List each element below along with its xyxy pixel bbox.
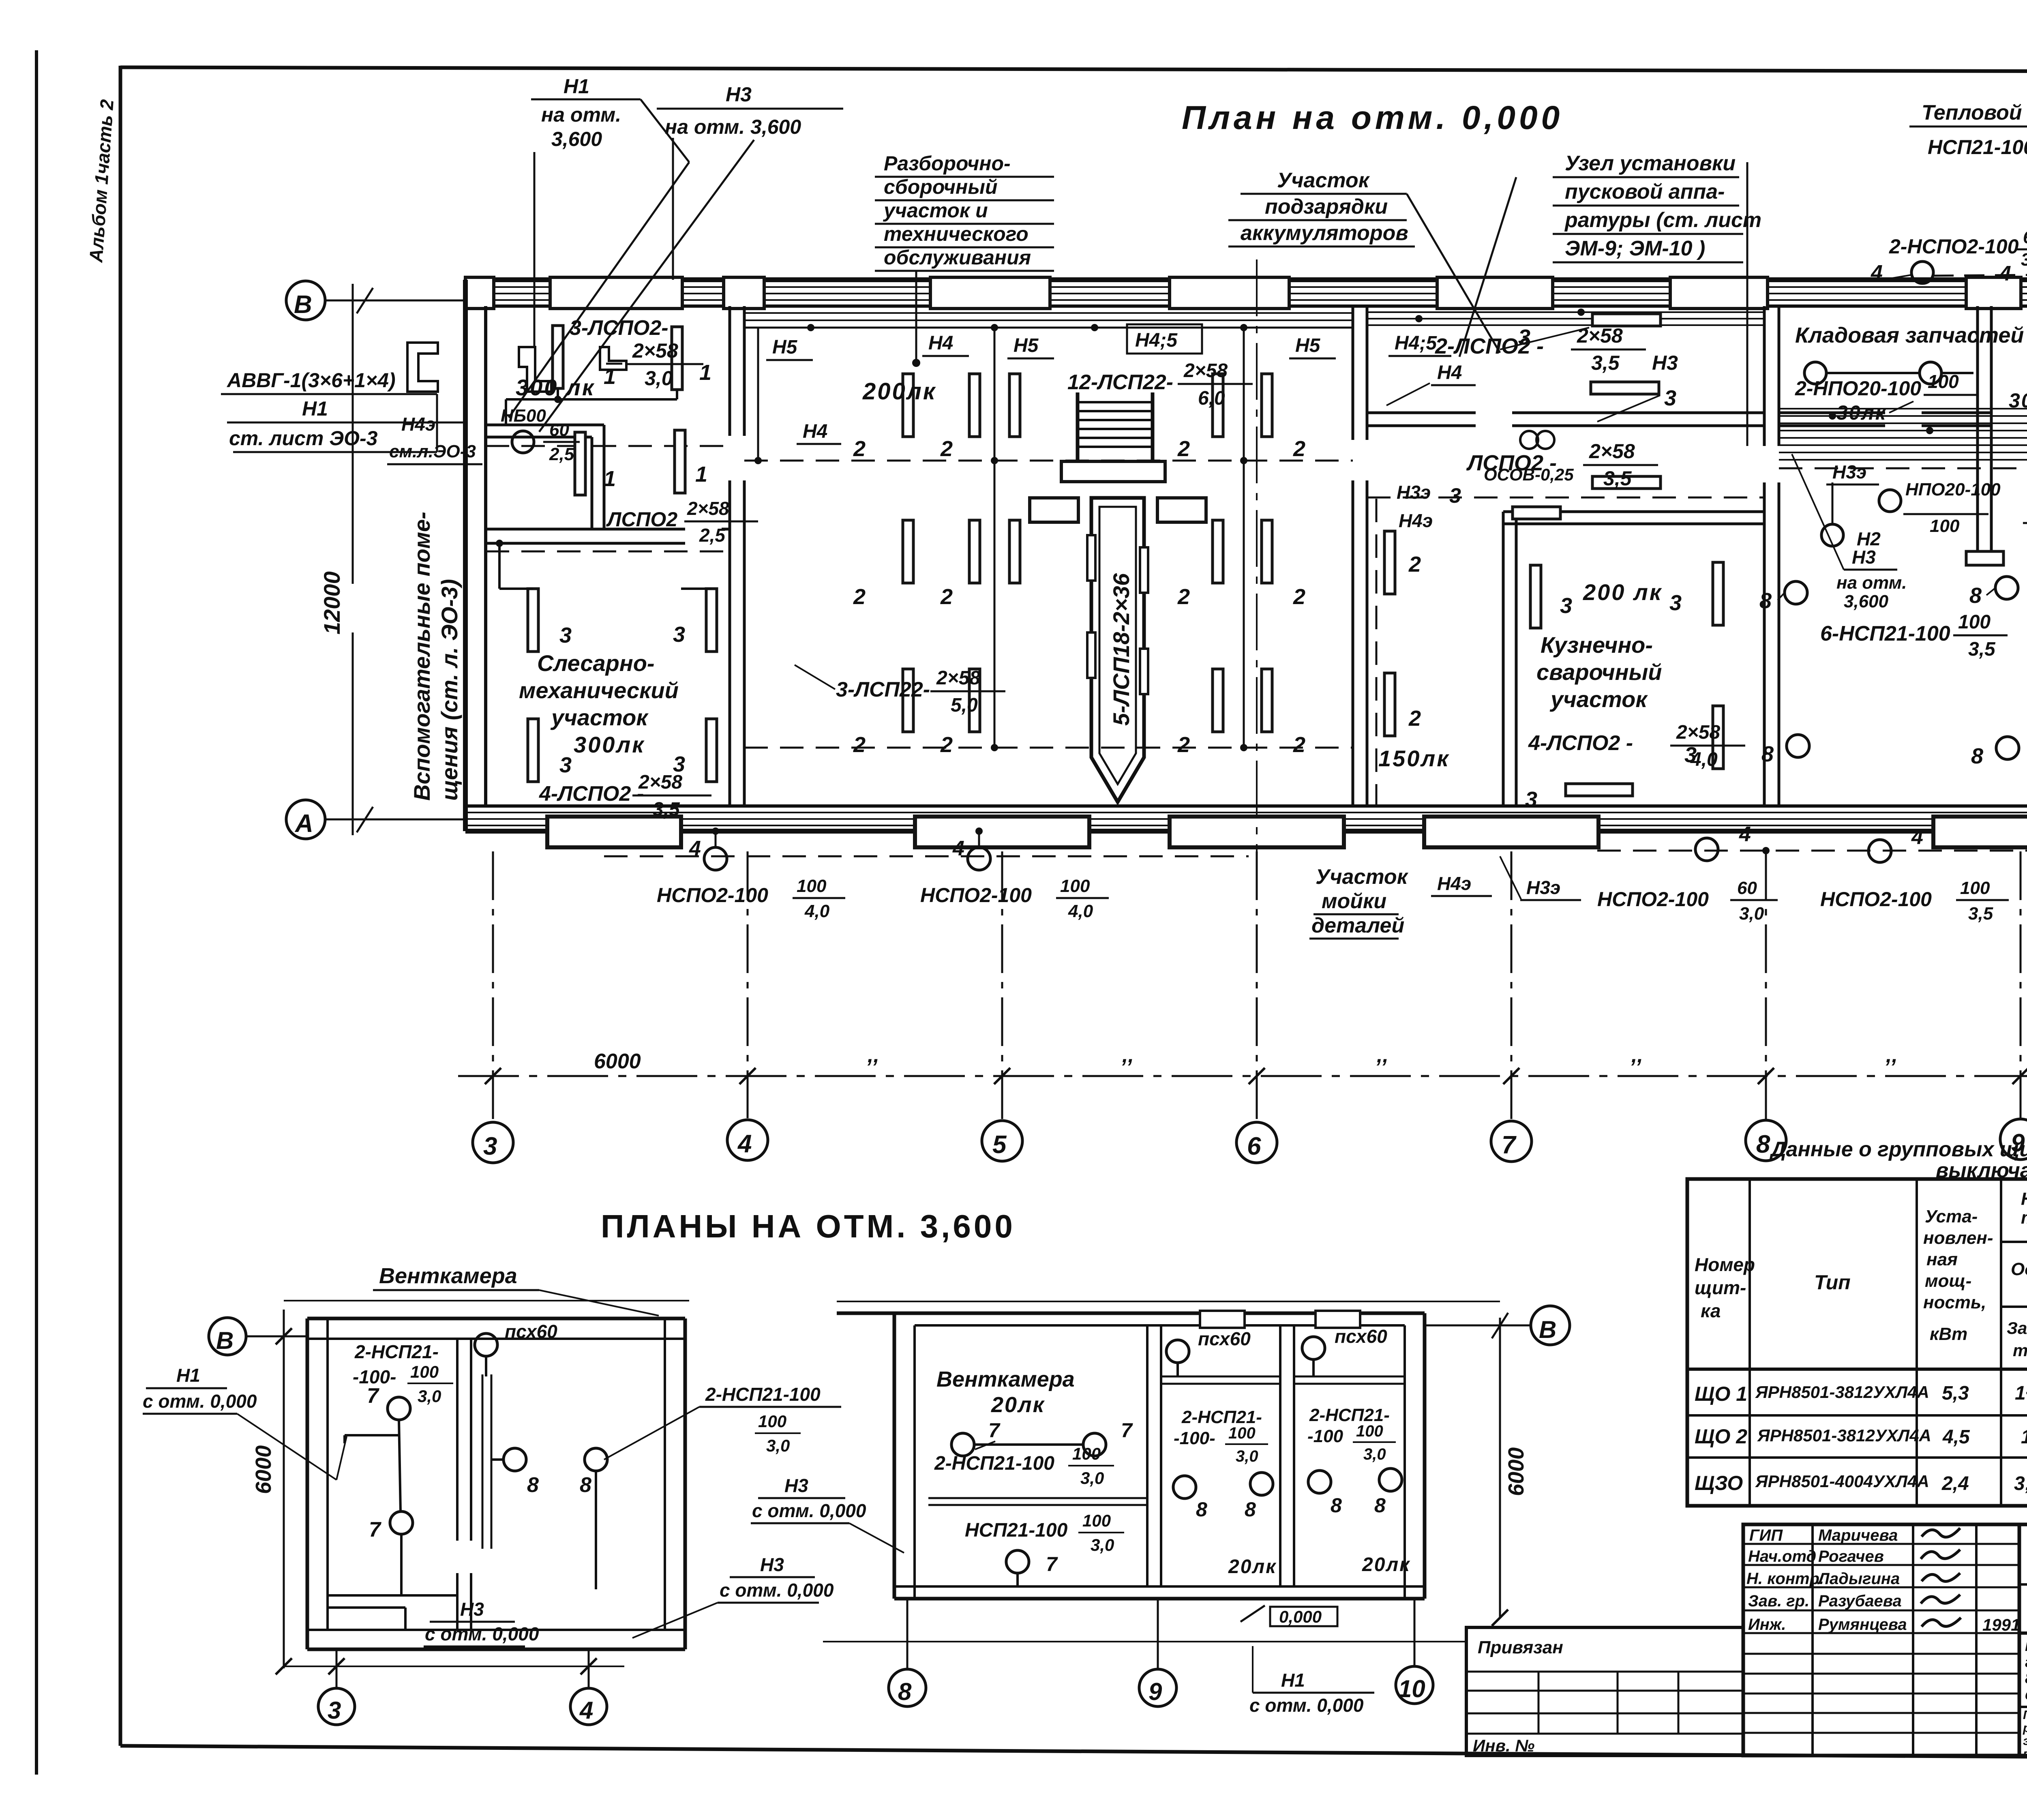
svg-text:3,5: 3,5 <box>1591 352 1620 374</box>
svg-text:2: 2 <box>1293 437 1305 461</box>
svg-text:гаража на 8автомашин и: гаража на 8автомашин и <box>2025 1654 2027 1671</box>
partition wall grid8 vertical <box>1763 306 1766 446</box>
fluorescent fixture hall r1c3 <box>1009 374 1020 437</box>
frame bottom <box>120 1746 2027 1760</box>
svg-text:8: 8 <box>1196 1498 1207 1521</box>
svg-text:3,0: 3,0 <box>645 367 673 390</box>
svg-text:-100-: -100- <box>353 1366 396 1387</box>
svg-text:НСПО2-100: НСПО2-100 <box>1597 888 1709 911</box>
svg-text:100: 100 <box>1928 371 1959 392</box>
right plan lamps 8 <box>1173 1476 1196 1498</box>
svg-text:см.л.ЭО-3: см.л.ЭО-3 <box>389 442 476 461</box>
svg-text:обслуживания: обслуживания <box>884 246 1031 269</box>
svg-text:2-НПО20-100: 2-НПО20-100 <box>1795 377 1921 400</box>
svg-text:Н3: Н3 <box>726 83 752 106</box>
right plan psx60 lamps <box>1166 1340 1189 1363</box>
fluorescent fixture hall r3c4 <box>1213 669 1223 732</box>
signature scribbles <box>1922 1528 1960 1537</box>
svg-text:4,0: 4,0 <box>804 901 830 921</box>
pit fixture ЛСП18 left top <box>1087 535 1095 581</box>
svg-text:мойки: мойки <box>1322 890 1386 913</box>
svg-text:на отм.: на отм. <box>1836 573 1907 593</box>
svg-text:Данные о групповых щитках с ав: Данные о групповых щитках с автоматическ… <box>1769 1138 2027 1161</box>
svg-text:100: 100 <box>1228 1424 1256 1442</box>
svg-text:Зав. гр.: Зав. гр. <box>1748 1592 1809 1610</box>
svg-text:3,5: 3,5 <box>1968 904 1993 924</box>
svg-text:ЩЗО: ЩЗО <box>1695 1472 1743 1494</box>
inspection pit inner line <box>1099 507 1136 784</box>
svg-text:псх60: псх60 <box>1198 1328 1251 1349</box>
svg-text:АВВГ-1(3×6+1×4): АВВГ-1(3×6+1×4) <box>226 369 396 392</box>
right plan bottom ground line <box>823 1641 1468 1642</box>
svg-text:6,0: 6,0 <box>1198 388 1225 409</box>
title block stamp <box>1466 1524 2027 1805</box>
left plan lamps 8 <box>504 1448 526 1471</box>
svg-text:Привязан: Привязан <box>1478 1638 1563 1657</box>
svg-text:8: 8 <box>1759 589 1772 613</box>
svg-text:8: 8 <box>1374 1494 1386 1517</box>
svg-text:60: 60 <box>1737 878 1757 898</box>
svg-text:стоянкой: стоянкой <box>2025 1686 2027 1703</box>
svg-text:ПЛАНЫ НА ОТМ. 3,600: ПЛАНЫ НА ОТМ. 3,600 <box>601 1208 1016 1244</box>
svg-text:5: 5 <box>992 1131 1007 1159</box>
gate sill grid6 <box>1170 817 1344 847</box>
svg-text:100: 100 <box>1072 1444 1101 1463</box>
hall top wiring bundle <box>744 312 1353 314</box>
bottom wall outer line <box>465 829 2027 834</box>
fixture locksmith b <box>706 589 717 652</box>
main plan title <box>1182 99 1563 136</box>
svg-text:4-ЛСПО2 -: 4-ЛСПО2 - <box>539 782 644 806</box>
fluorescent fixture hall r3c2 <box>969 669 980 732</box>
svg-text:,,: ,, <box>1376 1044 1388 1067</box>
partition wall horizontal left rooms <box>486 528 685 531</box>
svg-text:7: 7 <box>1502 1131 1517 1159</box>
svg-text:3,0: 3,0 <box>1236 1447 1258 1465</box>
entry circle НБ00 <box>512 431 534 453</box>
svg-text:Номера автома-: Номера автома- <box>2021 1189 2027 1209</box>
svg-text:10: 10 <box>1398 1675 1425 1702</box>
svg-text:Н1: Н1 <box>302 397 328 420</box>
svg-text:Н1: Н1 <box>564 75 589 98</box>
fixture room1 b <box>672 327 682 390</box>
svg-text:НСП21-100: НСП21-100 <box>1928 136 2027 159</box>
svg-text:2-НСПО2-100: 2-НСПО2-100 <box>1889 235 2019 258</box>
svg-text:Тип: Тип <box>1814 1271 1851 1294</box>
left exterior wall <box>463 280 468 831</box>
svg-text:2×58: 2×58 <box>1183 360 1228 382</box>
fluorescent fixture hall r2c4 <box>1213 520 1223 583</box>
svg-text:на отм. 3,600: на отм. 3,600 <box>665 116 801 138</box>
svg-text:2: 2 <box>1177 585 1190 609</box>
svg-text:3,600: 3,600 <box>1844 592 1889 611</box>
svg-text:3,600: 3,600 <box>551 128 602 150</box>
stairs landing <box>1061 461 1165 482</box>
svg-text:3,0: 3,0 <box>418 1387 441 1406</box>
ОСОВ fixture <box>1520 431 1538 449</box>
svg-text:7: 7 <box>367 1384 379 1408</box>
svg-text:Однополюс-: Однополюс- <box>2011 1259 2027 1279</box>
svg-text:3: 3 <box>1664 386 1676 410</box>
fluorescent fixture hall r2c2 <box>969 520 980 583</box>
svg-text:сварочный: сварочный <box>1536 659 1662 685</box>
bottom wall stripes <box>465 812 2027 813</box>
svg-text:технического: технического <box>884 223 1028 245</box>
svg-text:Н4: Н4 <box>1437 362 1462 384</box>
svg-text:ЯРН8501-3812УХЛ4А: ЯРН8501-3812УХЛ4А <box>1755 1383 1929 1402</box>
svg-text:Н3э: Н3э <box>1397 482 1431 503</box>
top wall pier near grid8 <box>1670 277 1768 309</box>
svg-text:ЩО 2: ЩО 2 <box>1695 1425 1747 1448</box>
dimension ticks <box>485 1068 501 1084</box>
svg-text:100: 100 <box>1958 611 1991 633</box>
svg-text:пусковой аппа-: пусковой аппа- <box>1565 180 1725 204</box>
svg-text:Н4э: Н4э <box>1437 873 1471 894</box>
stairs rails <box>1076 392 1080 462</box>
svg-text:Н3: Н3 <box>1852 547 1876 568</box>
grid 6 line <box>1256 851 1258 1121</box>
svg-text:7: 7 <box>369 1518 381 1541</box>
svg-text:30лк: 30лк <box>2009 389 2027 412</box>
svg-text:2: 2 <box>1177 733 1190 757</box>
fixture locksmith a <box>528 589 538 652</box>
svg-text:ЛСПО2: ЛСПО2 <box>606 508 677 531</box>
svg-text:участок: участок <box>1549 686 1648 712</box>
svg-text:1991: 1991 <box>1982 1615 2020 1634</box>
left plan lower partition <box>328 1594 457 1597</box>
pit fixture ЛСП18 right top <box>1140 547 1148 593</box>
svg-text:60: 60 <box>2023 227 2027 247</box>
svg-text:Слесарно-: Слесарно- <box>537 650 655 676</box>
fixture next to forge wall labels <box>1384 531 1395 594</box>
svg-text:1: 1 <box>604 467 616 491</box>
svg-text:Н3э: Н3э <box>1526 877 1560 898</box>
svg-text:3-ЛСП22-: 3-ЛСП22- <box>836 678 930 701</box>
svg-text:4,5: 4,5 <box>1942 1426 1970 1448</box>
fixture room1 c <box>575 432 585 495</box>
svg-text:псх60: псх60 <box>1335 1326 1387 1347</box>
circuit dashed line hall upper <box>486 445 730 447</box>
top wall window piers right plan <box>1200 1311 1245 1328</box>
plan interior wiring and fixtures <box>486 291 2027 854</box>
pit fixture ЛСП18 right bottom <box>1140 649 1148 694</box>
svg-text:Н1: Н1 <box>176 1365 200 1386</box>
right wing wiring bundle <box>1779 408 2027 409</box>
svg-text:-100-: -100- <box>1174 1428 1215 1448</box>
svg-text:аккумуляторов: аккумуляторов <box>1241 221 1408 245</box>
svg-text:8: 8 <box>1331 1494 1342 1517</box>
svg-text:новлен-: новлен- <box>1923 1228 1993 1248</box>
gate sill grid5 <box>915 817 1089 847</box>
svg-text:3: 3 <box>1525 787 1537 812</box>
svg-text:ратуры (ст. лист: ратуры (ст. лист <box>1564 208 1761 232</box>
svg-text:Н3: Н3 <box>760 1554 784 1575</box>
svg-text:,,: ,, <box>1886 1044 1898 1067</box>
left plan partition <box>456 1339 459 1541</box>
svg-text:3,0: 3,0 <box>1363 1445 1386 1463</box>
right plan long duct in ventchamber <box>928 1497 1147 1499</box>
forge room left wall <box>1502 512 1505 806</box>
svg-text:Тепловой узел: Тепловой узел <box>1922 101 2027 124</box>
svg-text:3-ЛСПО2-: 3-ЛСПО2- <box>570 316 669 340</box>
svg-text:В: В <box>294 291 312 319</box>
bottom exterior wall inner line <box>465 804 2027 808</box>
fluorescent fixture hall r2c3 <box>1009 520 1020 583</box>
svg-text:,,: ,, <box>1122 1044 1134 1067</box>
grid bubble 9 <box>2000 1119 2027 1160</box>
storeroom right wall with stub <box>1976 306 1979 551</box>
svg-text:Н4э: Н4э <box>1399 510 1433 531</box>
svg-text:7: 7 <box>1046 1553 1058 1576</box>
fluorescent fixture hall r1c4 <box>1213 374 1223 437</box>
top wall pier near grid5 <box>930 277 1050 309</box>
top wall window stripes <box>465 286 2027 288</box>
svg-text:3,5: 3,5 <box>1968 639 1996 660</box>
svg-text:Заня.: Заня. <box>2007 1318 2027 1338</box>
svg-text:2×58: 2×58 <box>687 498 729 519</box>
forge room top wall <box>1503 510 1764 513</box>
svg-text:Кузнечно-: Кузнечно- <box>1541 632 1653 658</box>
outdoor lamp 4 b <box>968 847 990 870</box>
svg-text:20лк: 20лк <box>1362 1554 1411 1576</box>
svg-text:20лк: 20лк <box>991 1393 1045 1417</box>
grid 9 line <box>2020 851 2022 1118</box>
svg-text:ная: ная <box>1926 1250 1958 1269</box>
svg-text:8: 8 <box>1761 742 1774 766</box>
grid bubble 4 <box>727 1120 768 1160</box>
fluorescent fixture hall r1c1 <box>903 374 913 437</box>
grid bubble 7 <box>1491 1121 1532 1162</box>
svg-text:Узел установки: Узел установки <box>1565 152 1736 175</box>
svg-text:2: 2 <box>853 733 866 757</box>
svg-text:6000: 6000 <box>251 1445 276 1494</box>
svg-text:3,0: 3,0 <box>1080 1468 1104 1488</box>
svg-text:Инв. №: Инв. № <box>1473 1736 1534 1755</box>
svg-text:4: 4 <box>737 1130 752 1158</box>
annotations below plan <box>604 358 2027 939</box>
svg-text:6000: 6000 <box>1504 1447 1528 1496</box>
circuit dashed forge left vertical <box>1376 499 1378 805</box>
fluorescent fixture hall r2c1 <box>903 520 913 583</box>
corridor top wiring bundle right <box>1367 311 1764 313</box>
grid bubbles left plan <box>336 1649 338 1687</box>
svg-text:Номер: Номер <box>1695 1254 1755 1275</box>
fixture locksmith c <box>528 719 538 782</box>
svg-text:Инж.: Инж. <box>1748 1616 1786 1633</box>
svg-text:Уста-: Уста- <box>1925 1207 1978 1226</box>
svg-text:ГИП: ГИП <box>1749 1526 1783 1544</box>
svg-text:2: 2 <box>853 437 866 461</box>
svg-text:2-ЛСПО2 -: 2-ЛСПО2 - <box>1435 334 1544 358</box>
svg-text:200лк: 200лк <box>862 378 936 405</box>
svg-text:Н. контр.: Н. контр. <box>1746 1570 1824 1588</box>
svg-text:8тракторов с навесом.: 8тракторов с навесом. <box>2025 1670 2027 1687</box>
svg-text:Н4;5: Н4;5 <box>1135 330 1178 351</box>
outdoor lamp 4 d <box>1868 840 1891 862</box>
outdoor circuit dashed left <box>604 855 1249 857</box>
grid bubbles right plan <box>906 1599 909 1669</box>
svg-text:200 лк: 200 лк <box>1583 579 1663 605</box>
svg-text:В: В <box>216 1327 234 1354</box>
svg-text:2×58: 2×58 <box>936 667 980 689</box>
svg-text:с отм. 0,000: с отм. 0,000 <box>720 1580 834 1601</box>
gate sill grid9 <box>1933 817 2027 847</box>
gate sill grid7 <box>1424 817 1598 847</box>
svg-text:100: 100 <box>1060 876 1090 896</box>
svg-text:100: 100 <box>410 1362 439 1381</box>
svg-text:5,3: 5,3 <box>1942 1383 1969 1404</box>
svg-text:ЭМ-9; ЭМ-10 ): ЭМ-9; ЭМ-10 ) <box>1565 237 1705 260</box>
svg-text:2,5: 2,5 <box>699 525 726 546</box>
B circle right plan <box>1531 1306 1570 1345</box>
svg-text:4: 4 <box>1739 823 1751 846</box>
svg-text:А: А <box>294 810 313 838</box>
svg-text:Ладыгина: Ладыгина <box>1817 1570 1900 1588</box>
svg-text:Разборочно-: Разборочно- <box>884 152 1011 175</box>
svg-text:Н4: Н4 <box>803 421 827 442</box>
inspection pit outline <box>1091 498 1144 802</box>
svg-text:3,0: 3,0 <box>1739 904 1764 924</box>
storeroom lamps <box>1804 362 1826 384</box>
panel data table <box>1687 1138 2027 1506</box>
svg-text:12000: 12000 <box>319 571 345 635</box>
left plan duct shaft <box>482 1374 484 1549</box>
top wall pier near grid9 <box>1966 277 2021 309</box>
right plan ducts horizontal <box>1161 1376 1280 1378</box>
svg-text:2: 2 <box>940 585 953 609</box>
svg-text:Н3: Н3 <box>1652 352 1678 374</box>
section dashdot through plan at grid6 <box>1256 259 1258 851</box>
left plan outer walls <box>306 1318 309 1649</box>
svg-text:Планы расположения элект-: Планы расположения элект- <box>2023 1708 2027 1722</box>
svg-text:с отм. 0,000: с отм. 0,000 <box>1249 1695 1364 1716</box>
svg-text:4: 4 <box>1911 825 1923 849</box>
svg-text:2,5: 2,5 <box>549 444 574 464</box>
partition wall grid4 vertical <box>729 306 731 436</box>
svg-text:Кладовая запчастей: Кладовая запчастей <box>1795 323 2024 347</box>
grid 3 line <box>492 851 494 1121</box>
svg-text:8: 8 <box>580 1473 591 1497</box>
svg-text:Н4;5: Н4;5 <box>1395 332 1437 354</box>
svg-text:300лк: 300лк <box>574 732 645 757</box>
top wall pier near grid7 <box>1437 277 1553 309</box>
svg-text:1÷3: 1÷3 <box>2021 1426 2027 1448</box>
top wall pier near grid6 <box>1170 277 1289 309</box>
svg-text:Участок: Участок <box>1277 169 1370 192</box>
svg-text:с отм. 0,000: с отм. 0,000 <box>752 1500 866 1521</box>
svg-text:4-ЛСПО2 -: 4-ЛСПО2 - <box>1528 731 1633 755</box>
svg-text:100: 100 <box>1930 516 1960 536</box>
page edge line <box>35 50 38 1775</box>
svg-text:7: 7 <box>988 1419 1001 1442</box>
svg-text:3: 3 <box>483 1132 497 1160</box>
svg-text:Н3э: Н3э <box>1832 461 1866 482</box>
svg-text:2: 2 <box>1177 437 1190 461</box>
svg-text:3,0: 3,0 <box>1091 1535 1114 1554</box>
svg-text:2: 2 <box>940 437 953 461</box>
svg-text:Производственный корпус: Производственный корпус <box>2025 1638 2027 1655</box>
wiring hall verticals <box>994 328 996 748</box>
left plan vertical dim <box>283 1310 285 1668</box>
svg-text:НСПО2-100: НСПО2-100 <box>1820 888 1932 911</box>
grid 4 line <box>747 851 749 1118</box>
svg-text:псх60: псх60 <box>505 1321 557 1342</box>
pit head crossband <box>1030 498 1078 522</box>
svg-text:НСПО2-100: НСПО2-100 <box>920 884 1032 907</box>
svg-text:2: 2 <box>940 733 953 757</box>
table vertical lines <box>1748 1179 1751 1506</box>
svg-text:3,5: 3,5 <box>653 799 680 820</box>
svg-text:2-НСП21-: 2-НСП21- <box>354 1341 439 1362</box>
dimensions and grid bubbles <box>286 259 2027 1163</box>
signature table outline <box>1743 1524 2019 1756</box>
svg-text:8: 8 <box>1245 1498 1256 1521</box>
fluorescent fixture hall r3c1 <box>903 669 913 732</box>
svg-text:участок и: участок и <box>883 199 988 222</box>
top wall pier midspan 3-4 <box>550 277 682 309</box>
left plan lamps 7 <box>388 1397 410 1420</box>
0.000 level mark <box>1270 1607 1337 1626</box>
top wall inner line <box>465 304 2027 308</box>
svg-text:2-НСП21-100: 2-НСП21-100 <box>705 1384 821 1405</box>
svg-text:НБ00: НБ00 <box>501 406 546 426</box>
svg-text:Рогачев: Рогачев <box>1818 1548 1884 1565</box>
svg-text:1÷5: 1÷5 <box>2015 1383 2027 1404</box>
svg-text:мощ-: мощ- <box>1925 1271 1971 1291</box>
svg-text:-100: -100 <box>1307 1426 1343 1446</box>
grid bubble 3 <box>473 1122 513 1163</box>
wall fragment symbols top-left <box>519 347 551 392</box>
svg-text:Нач.отд: Нач.отд <box>1748 1548 1816 1565</box>
svg-text:100: 100 <box>1960 878 1990 898</box>
right plan outer walls <box>893 1313 896 1599</box>
grid bubble 8 <box>1746 1120 1786 1161</box>
fixture room1 d <box>675 430 685 493</box>
svg-text:3: 3 <box>559 623 572 647</box>
Н4;5 boxed <box>1127 324 1202 354</box>
grid bubble 5 <box>982 1121 1022 1161</box>
svg-text:9: 9 <box>1148 1678 1162 1705</box>
outdoor lamp 4 c <box>1695 838 1718 861</box>
svg-text:Участок: Участок <box>1316 865 1409 889</box>
table horizontal lines <box>2001 1241 2027 1243</box>
svg-text:Венткамера: Венткамера <box>936 1367 1075 1391</box>
svg-text:ЯРН8501-4004УХЛ4А: ЯРН8501-4004УХЛ4А <box>1755 1472 1929 1491</box>
svg-text:6000: 6000 <box>594 1050 641 1073</box>
svg-text:тических выклю-: тических выклю- <box>2021 1208 2027 1228</box>
svg-text:2×58: 2×58 <box>1577 324 1623 347</box>
svg-text:6-НСП21-100: 6-НСП21-100 <box>1820 622 1950 645</box>
svg-text:с отм. 0,000: с отм. 0,000 <box>143 1391 257 1412</box>
svg-text:100: 100 <box>1082 1511 1111 1530</box>
svg-text:ность,: ность, <box>1923 1293 1986 1312</box>
fluorescent fixture hall r2c5 <box>1262 520 1272 583</box>
svg-text:2×58: 2×58 <box>1589 440 1635 463</box>
attachment box <box>1466 1627 1743 1756</box>
svg-text:производственных поме-: производственных поме- <box>2023 1747 2027 1761</box>
svg-text:механический: механический <box>519 677 679 703</box>
right plan lamps 7 top <box>951 1433 974 1456</box>
svg-text:3: 3 <box>1449 484 1461 508</box>
bottom dimension chain line <box>458 1075 2027 1077</box>
wiring room1 <box>506 398 677 401</box>
svg-text:щит-: щит- <box>1695 1277 1746 1298</box>
top exterior wall outer line <box>465 277 2027 282</box>
svg-text:3: 3 <box>1560 594 1572 618</box>
right plan top dim line <box>837 1301 1500 1302</box>
annotations above plan <box>221 75 2027 801</box>
stairs rungs <box>1078 401 1153 403</box>
